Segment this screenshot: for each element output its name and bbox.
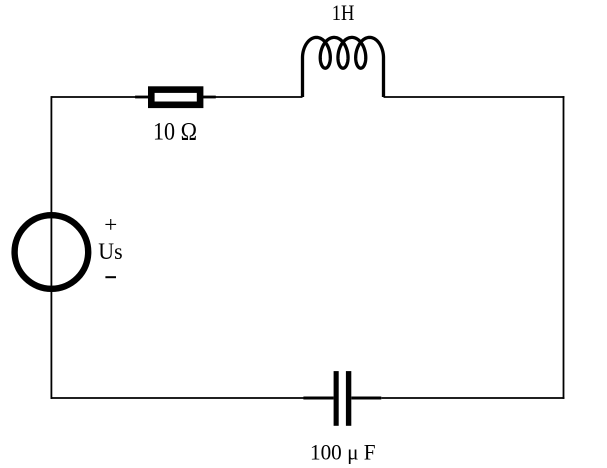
voltage source Us circle [15, 215, 89, 289]
capacitor C lead right [351, 397, 381, 400]
wire top-right segment [384, 96, 565, 98]
svg-text:+: + [104, 212, 117, 237]
resistor R lead left [135, 96, 149, 99]
svg-text:100 μ F: 100 μ F [310, 439, 376, 464]
wire top-middle segment [216, 96, 303, 98]
wire right side [563, 96, 565, 399]
capacitor C left plate [334, 371, 339, 426]
capacitor C lead left [303, 397, 333, 400]
wire left side [50, 96, 52, 399]
wire top-left segment [51, 96, 136, 98]
inductor L coil [303, 37, 384, 97]
svg-text:10 Ω: 10 Ω [153, 119, 197, 146]
svg-text:1H: 1H [332, 0, 355, 25]
voltage source minus sign [105, 276, 116, 278]
resistor R lead right [203, 96, 216, 99]
wire bottom-right segment [381, 397, 564, 399]
svg-text:Us: Us [98, 239, 122, 264]
resistor R body [151, 90, 200, 105]
wire bottom-left segment [51, 397, 307, 399]
capacitor C right plate [346, 371, 351, 426]
